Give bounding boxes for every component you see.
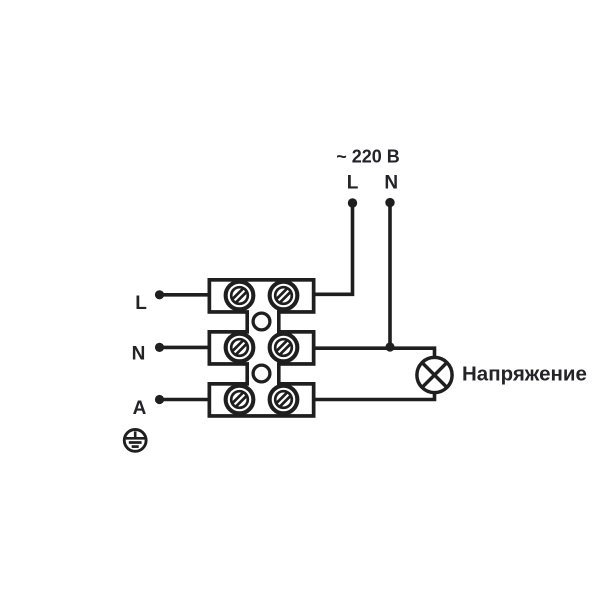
terminal dot N supply [385, 198, 394, 207]
svg-text:L: L [135, 293, 147, 314]
screw terminal L left [226, 282, 254, 310]
neck between row L and row N [247, 306, 279, 337]
neck between row N and row A [247, 358, 279, 389]
wire N left lead [160, 346, 211, 350]
wire L left lead [160, 293, 211, 297]
wire lamp bottom to A row [313, 393, 435, 400]
screw terminal A left [226, 386, 254, 414]
svg-text:~ 220 В: ~ 220 В [336, 147, 400, 167]
terminal dot N left [155, 343, 164, 352]
wire N row to lamp top [313, 348, 435, 358]
terminal block row N body [209, 332, 313, 364]
wire L vertical from supply to block [313, 203, 353, 294]
protective earth ground symbol [124, 430, 146, 452]
wire A left lead [160, 398, 211, 402]
terminal dot L supply [348, 198, 357, 207]
wire N vertical from supply to junction [388, 203, 392, 348]
screw terminal A right [270, 386, 298, 414]
svg-text:N: N [132, 344, 146, 365]
svg-text:L: L [347, 172, 359, 193]
mounting hole between row N and row A [253, 365, 270, 382]
mounting hole between row L and row N [253, 313, 270, 330]
terminal dot A left [155, 395, 164, 404]
svg-text:A: A [133, 398, 147, 419]
screw terminal N left [226, 334, 254, 362]
junction node on N wire [385, 342, 394, 351]
svg-text:N: N [384, 172, 398, 193]
terminal dot L left [155, 290, 164, 299]
screw terminal L right [270, 282, 298, 310]
svg-text:Напряжение: Напряжение [462, 362, 587, 385]
lamp U1 (voltage indicator) [417, 357, 452, 392]
screw terminal N right [270, 334, 298, 362]
terminal block row A body [209, 384, 313, 416]
terminal block row L body [209, 280, 313, 312]
